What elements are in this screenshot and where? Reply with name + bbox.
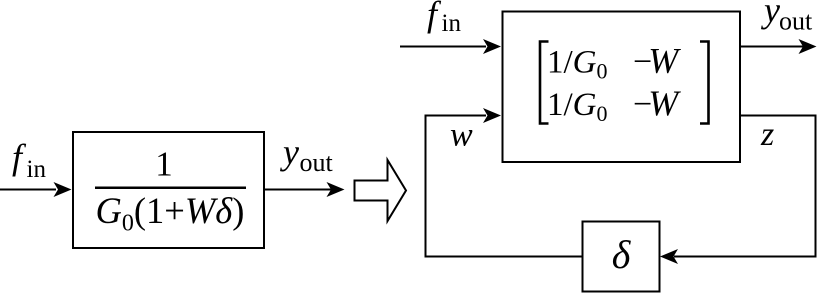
svg-text:y: y — [280, 132, 299, 172]
svg-text:−W: −W — [633, 41, 681, 81]
wire: left block output — [265, 189, 331, 191]
arrowhead into delta block — [660, 249, 678, 264]
wire: feedback left side (delta out, up to w input) — [426, 116, 583, 257]
svg-text:−W: −W — [633, 83, 681, 123]
arrowhead w into right block — [483, 108, 501, 123]
block: delta box — [583, 222, 660, 292]
svg-text:G0(1+Wδ): G0(1+Wδ) — [96, 190, 245, 237]
wire: y_out from right block — [740, 46, 803, 48]
block: right matrix box — [503, 12, 741, 163]
wire: f_in into right block — [400, 46, 486, 48]
svg-text:1: 1 — [155, 145, 173, 184]
svg-text:w: w — [450, 117, 473, 154]
wire: z from right block down to delta — [674, 116, 816, 257]
svg-text:out: out — [300, 148, 334, 177]
svg-text:1/G0: 1/G0 — [547, 87, 608, 126]
block: left transfer function box — [73, 132, 264, 248]
matrix left bracket — [540, 42, 549, 124]
svg-text:f: f — [12, 137, 27, 177]
arrowhead into left block — [54, 182, 72, 197]
arrowhead output left — [327, 182, 345, 197]
svg-text:in: in — [27, 156, 47, 183]
fraction bar — [95, 187, 246, 190]
big hollow arrow — [355, 160, 407, 221]
arrowhead f_in right — [483, 39, 501, 54]
arrowhead y_out right — [799, 39, 817, 54]
wire: input to left block — [0, 189, 56, 191]
svg-text:f: f — [427, 0, 442, 34]
svg-text:in: in — [442, 10, 462, 37]
svg-text:y: y — [761, 0, 780, 30]
svg-text:δ: δ — [612, 232, 632, 277]
svg-text:z: z — [760, 116, 774, 153]
svg-text:out: out — [779, 7, 813, 36]
svg-text:1/G0: 1/G0 — [547, 45, 608, 84]
matrix right bracket — [700, 42, 709, 124]
